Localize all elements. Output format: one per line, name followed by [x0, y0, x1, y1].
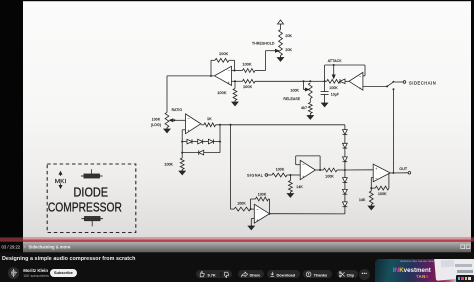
share pill: [238, 270, 264, 279]
top hairline: [0, 0, 474, 1]
potentiometer ATTACK 100K: [327, 59, 343, 90]
left letterbox bar: [0, 0, 23, 237]
svg-text:+: +: [302, 175, 304, 179]
resistor 4k7 below release: [301, 99, 312, 114]
potentiometer RATIO 100K LOG: [151, 108, 183, 127]
diode D2 in U2 feedback: [192, 139, 203, 144]
capacitor 10uF: [321, 81, 339, 103]
diode D4 reverse in U2 feedback: [182, 125, 220, 155]
svg-text:14K: 14K: [359, 198, 366, 202]
svg-text:−: −: [228, 69, 230, 73]
svg-text:ATTACK: ATTACK: [328, 59, 342, 63]
svg-text:COMPRESSOR: COMPRESSOR: [48, 201, 122, 215]
U3 output wire to diode chain bottom: [269, 213, 345, 215]
potentiometer THRESHOLD 20K/20K body: [252, 30, 292, 56]
U3 + input to ground: [248, 219, 254, 230]
wire threshold wiper down to 100K row: [265, 51, 267, 71]
thanks pill: [303, 270, 332, 279]
attack wiper arrow: [332, 65, 335, 78]
player right icons: [461, 245, 465, 249]
svg-text:+: +: [228, 81, 230, 85]
svg-text:−: −: [302, 163, 304, 167]
svg-text:100K: 100K: [242, 62, 252, 66]
svg-text:−: −: [188, 116, 190, 120]
resistor 100K into U3: [231, 202, 255, 211]
svg-text:+: +: [375, 167, 377, 171]
ground below capacitor: [322, 102, 328, 107]
svg-text:−: −: [375, 177, 377, 181]
resistor 14K to ground at U5: [359, 188, 373, 204]
svg-text:Share: Share: [250, 272, 262, 277]
wire U6 + input to sidechain switch: [363, 85, 387, 87]
svg-text:100K: 100K: [325, 174, 334, 178]
svg-text:14K: 14K: [296, 185, 303, 189]
svg-text:+: +: [359, 86, 361, 90]
clip pill: [337, 270, 358, 279]
diode chain tap node: [344, 162, 346, 178]
like / dislike pill: [196, 270, 232, 279]
svg-text:Sidechaining & more: Sidechaining & more: [29, 244, 71, 249]
U4 feedback wire: [296, 156, 321, 171]
U1 output wire to ratio pot: [167, 75, 215, 112]
power +V symbol above threshold pot: [278, 20, 284, 30]
resistor 100K from U1 + input to ground: [217, 81, 237, 102]
svg-text:Clip: Clip: [346, 272, 354, 277]
svg-text:OUT: OUT: [399, 167, 408, 171]
op-amp U4 (buffer): [300, 160, 315, 179]
resistor 100K from diode loop to ground: [164, 152, 184, 170]
svg-text:100K: 100K: [329, 86, 338, 90]
op-amp U2 (log stage): [186, 114, 201, 134]
svg-text:SIGNAL: SIGNAL: [247, 174, 263, 178]
svg-text:−: −: [359, 75, 361, 79]
op-amp U6 (attack, output left): [349, 72, 363, 90]
subscriber count: [23, 274, 49, 278]
svg-text:100K: 100K: [378, 192, 387, 196]
svg-text:Thanks: Thanks: [313, 272, 327, 277]
svg-text:SIDECHAIN: SIDECHAIN: [409, 80, 436, 85]
diode D7: [343, 148, 348, 162]
diode at attack op-amp output: [340, 79, 349, 84]
feedback resistor 100K over U1: [211, 52, 236, 76]
MKI mini logo: [55, 172, 67, 189]
ground below 4k7: [307, 114, 313, 120]
switch throw to sidechain jack: [393, 81, 406, 84]
progress bar buffered band: [0, 237, 474, 239]
resistor 1K at U2 output: [201, 117, 216, 127]
wire release node to attack node: [310, 80, 325, 82]
svg-text:100K: 100K: [237, 202, 246, 206]
logo text DIODE: [74, 186, 109, 200]
switch throw to internal feedback: [393, 88, 395, 173]
SIDECHAIN label: [409, 80, 436, 85]
video white frame: [23, 1, 471, 237]
switch SW1 pole: [386, 82, 393, 88]
video title: [2, 256, 302, 262]
resistor 100K from signal input: [272, 167, 300, 177]
svg-text:100K: 100K: [243, 85, 253, 89]
wire down to inverting amp U3: [230, 125, 232, 209]
svg-text:100K: 100K: [152, 118, 161, 122]
svg-text:4k7: 4k7: [301, 106, 307, 110]
svg-text:−: −: [256, 207, 258, 211]
ratio wiper arrow: [170, 119, 186, 122]
svg-text:10µF: 10µF: [331, 92, 339, 96]
wire U2 output to rectifier diode chain: [216, 124, 345, 126]
svg-text:100K: 100K: [219, 52, 229, 56]
diode D3 in U2 feedback: [181, 139, 221, 144]
svg-text:20K: 20K: [285, 34, 292, 38]
sidebar ad thumbnail: [375, 259, 474, 282]
subscribe button: [50, 269, 77, 278]
U5 output wire and OUT terminal: [390, 167, 411, 174]
ground below diode-loop resistor: [179, 170, 185, 175]
svg-text:100K: 100K: [217, 91, 227, 95]
diode D10: [343, 194, 348, 214]
svg-text:1K: 1K: [207, 117, 212, 121]
feedback resistor 100K of U5: [371, 173, 389, 196]
ground below threshold pot: [277, 56, 283, 62]
channel avatar: [8, 267, 20, 279]
progress bar played band: [0, 240, 474, 242]
resistor 100K from buffer to diode tap: [315, 168, 345, 178]
diode D5: [343, 130, 348, 135]
svg-text:+: +: [188, 129, 190, 133]
threshold wiper arrow: [266, 49, 279, 52]
diode chain top corner: [344, 125, 346, 130]
attack feedback rail: [325, 64, 365, 81]
ground below 14K: [368, 205, 374, 210]
diode D8: [343, 178, 348, 183]
channel name: [23, 268, 48, 273]
svg-text:RATIO: RATIO: [172, 108, 183, 112]
SIGNAL input terminal: [247, 174, 272, 178]
svg-text:100K: 100K: [276, 167, 285, 171]
player bottom scrim: [23, 242, 471, 253]
op-amp U5 (output amp): [373, 164, 390, 182]
dark ink tank corner: [456, 275, 474, 282]
svg-text:20K: 20K: [285, 48, 292, 52]
potentiometer RELEASE 100K: [283, 80, 312, 101]
svg-text:100K: 100K: [258, 193, 267, 197]
logo text COMPRESSOR: [48, 201, 122, 215]
wire diode tap to U5: [345, 169, 373, 171]
svg-text:9.7K: 9.7K: [207, 272, 215, 277]
feedback resistor 100K over U3: [250, 193, 270, 214]
printer artwork: [434, 254, 474, 281]
ground below signal divider: [287, 192, 293, 197]
svg-text:THRESHOLD: THRESHOLD: [252, 41, 275, 45]
diode D1 in U2 feedback: [182, 139, 192, 144]
svg-text:RELEASE: RELEASE: [283, 97, 300, 101]
op-amp U3 (inverter): [254, 204, 269, 223]
svg-text:Download: Download: [276, 272, 295, 277]
svg-text:03 / 29:22: 03 / 29:22: [2, 244, 21, 249]
resistor 100K from U1 inverting input to threshold wiper: [232, 62, 266, 72]
logo bottom electrode symbol: [82, 217, 104, 227]
diode D6: [343, 134, 348, 148]
ground below U1 input resistor: [232, 101, 238, 106]
svg-text:+: +: [256, 218, 258, 222]
svg-text:100K: 100K: [290, 88, 299, 92]
ground below ratio pot: [164, 128, 170, 133]
svg-text:DIODE: DIODE: [74, 186, 109, 200]
logo top electrode symbol: [81, 169, 103, 178]
wire U2 + input down to diode loop: [182, 130, 185, 153]
svg-text:100K: 100K: [164, 162, 173, 166]
resistor 100K from U1 non-inverting input to release line: [232, 79, 311, 89]
op-amp U1 (difference amp, output left): [215, 66, 232, 85]
diode D9: [343, 182, 348, 194]
resistor 14K signal divider: [289, 175, 304, 192]
right letterbox bar: [471, 0, 474, 237]
svg-text:(LOG): (LOG): [151, 123, 161, 127]
more actions dots button: [359, 269, 370, 280]
U5 feedback node wire: [370, 178, 373, 190]
release wiper arrow: [303, 80, 309, 91]
download pill: [267, 270, 301, 279]
dashed logo box frame: [47, 164, 136, 233]
